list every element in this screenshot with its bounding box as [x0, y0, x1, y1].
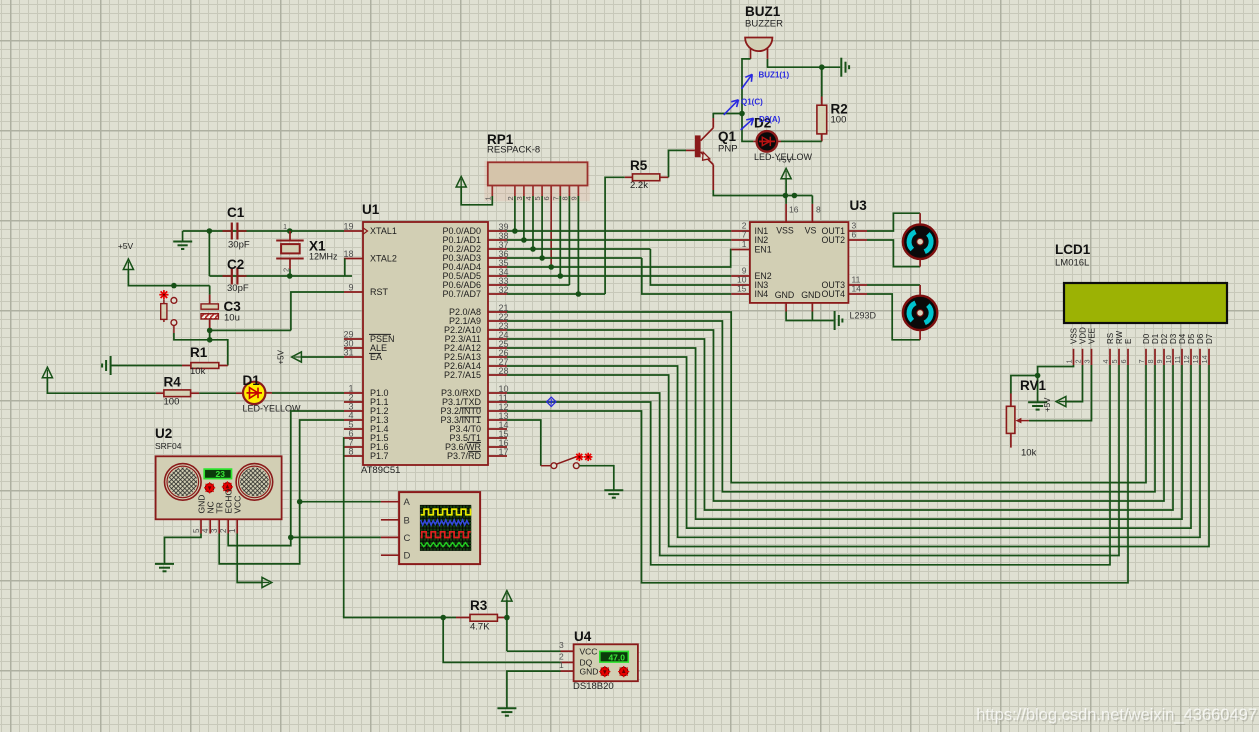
svg-text:18: 18 — [343, 249, 353, 259]
svg-text:C: C — [404, 533, 411, 544]
svg-text:23: 23 — [216, 469, 226, 479]
svg-text:P3.7/RD: P3.7/RD — [447, 451, 482, 461]
svg-text:D6: D6 — [1196, 333, 1205, 344]
svg-text:D3: D3 — [1169, 333, 1178, 344]
svg-text:2: 2 — [1073, 359, 1082, 363]
svg-text:4: 4 — [524, 196, 533, 200]
svg-text:LCD1: LCD1 — [1055, 242, 1091, 257]
svg-text:P0.7/AD7: P0.7/AD7 — [442, 289, 481, 299]
svg-text:3: 3 — [559, 640, 564, 650]
svg-text:8: 8 — [816, 205, 821, 215]
svg-text:EN1: EN1 — [755, 245, 772, 255]
svg-text:SRF04: SRF04 — [155, 441, 182, 451]
svg-text:9: 9 — [348, 283, 353, 293]
svg-text:PNP: PNP — [718, 144, 738, 155]
svg-text:RST: RST — [370, 287, 389, 297]
svg-text:47.0: 47.0 — [608, 652, 625, 662]
svg-text:RS: RS — [1106, 333, 1115, 344]
svg-text:4: 4 — [1101, 359, 1110, 363]
svg-text:11: 11 — [1173, 356, 1182, 364]
svg-text:D0: D0 — [1142, 333, 1151, 344]
svg-text:GND: GND — [580, 666, 599, 676]
svg-text:A: A — [404, 497, 411, 508]
svg-text:100: 100 — [164, 397, 180, 408]
svg-text:10k: 10k — [190, 366, 206, 377]
svg-text:D: D — [404, 551, 411, 562]
svg-text:AT89C51: AT89C51 — [361, 465, 400, 476]
svg-text:VCC: VCC — [233, 496, 243, 514]
svg-text:9: 9 — [1155, 359, 1164, 363]
svg-text:2: 2 — [506, 196, 515, 200]
svg-text:C1: C1 — [227, 205, 245, 220]
svg-text:19: 19 — [343, 222, 353, 232]
svg-text:30pF: 30pF — [227, 283, 249, 294]
svg-text:10: 10 — [1164, 355, 1173, 363]
svg-text:8: 8 — [348, 447, 353, 457]
svg-text:D2: D2 — [1160, 333, 1169, 344]
svg-text:P1.7: P1.7 — [370, 451, 389, 461]
svg-text:1: 1 — [283, 224, 287, 231]
svg-text:D5: D5 — [1187, 333, 1196, 344]
svg-text:12: 12 — [1182, 355, 1191, 363]
svg-text:7: 7 — [551, 196, 560, 200]
svg-text:10k: 10k — [1021, 448, 1037, 459]
svg-text:BUZ1: BUZ1 — [745, 4, 781, 19]
svg-text:D1: D1 — [1151, 333, 1160, 344]
svg-text:D7: D7 — [1205, 333, 1214, 344]
svg-text:17: 17 — [499, 447, 509, 457]
svg-text:7: 7 — [742, 230, 747, 240]
svg-text:BUZ1(1): BUZ1(1) — [759, 71, 790, 80]
svg-text:R1: R1 — [190, 345, 208, 360]
svg-text:6: 6 — [542, 196, 551, 200]
svg-text:RESPACK-8: RESPACK-8 — [487, 145, 540, 156]
svg-text:VS: VS — [805, 226, 817, 236]
svg-text:1: 1 — [483, 196, 492, 200]
svg-text:14: 14 — [1200, 355, 1209, 363]
svg-text:3: 3 — [515, 196, 524, 200]
svg-text:100: 100 — [831, 115, 847, 126]
svg-text:2.2k: 2.2k — [630, 180, 648, 191]
svg-text:5: 5 — [192, 528, 201, 533]
svg-text:8: 8 — [560, 196, 569, 200]
svg-text:10u: 10u — [224, 313, 240, 324]
svg-text:1: 1 — [742, 239, 747, 249]
svg-text:12MHz: 12MHz — [309, 252, 338, 262]
svg-text:U3: U3 — [850, 198, 868, 213]
svg-text:OUT2: OUT2 — [822, 235, 846, 245]
svg-text:U4: U4 — [574, 629, 592, 644]
svg-text:LED-YELLOW: LED-YELLOW — [243, 404, 302, 414]
svg-text:DS18B20: DS18B20 — [573, 681, 614, 692]
svg-text:15: 15 — [737, 284, 747, 294]
svg-text:7: 7 — [1137, 359, 1146, 363]
svg-text:IN2: IN2 — [755, 235, 769, 245]
svg-text:2: 2 — [282, 268, 291, 272]
svg-text:4.7K: 4.7K — [470, 622, 490, 633]
svg-text:BUZZER: BUZZER — [745, 19, 783, 30]
svg-text:5: 5 — [533, 196, 542, 200]
svg-text:31: 31 — [343, 348, 353, 358]
svg-text:R4: R4 — [164, 375, 182, 390]
svg-text:1: 1 — [228, 528, 237, 533]
svg-text:IN4: IN4 — [755, 289, 769, 299]
svg-text:6: 6 — [1119, 359, 1128, 363]
svg-text:2: 2 — [219, 528, 228, 533]
svg-text:L293D: L293D — [850, 311, 877, 321]
svg-text:E: E — [1124, 339, 1133, 344]
svg-text:RV1: RV1 — [1020, 378, 1047, 393]
svg-text:R5: R5 — [630, 158, 648, 173]
svg-text:B: B — [404, 515, 410, 526]
svg-text:D1: D1 — [243, 373, 261, 388]
svg-text:LM016L: LM016L — [1055, 258, 1089, 269]
svg-text:6: 6 — [852, 230, 857, 240]
svg-text:4: 4 — [201, 528, 210, 533]
svg-text:GND: GND — [801, 290, 821, 300]
svg-text:8: 8 — [1146, 359, 1155, 363]
svg-text:OUT4: OUT4 — [822, 289, 846, 299]
svg-text:D2(A): D2(A) — [759, 115, 781, 124]
svg-text:RW: RW — [1115, 330, 1124, 344]
svg-text:R3: R3 — [470, 598, 488, 613]
svg-text:C2: C2 — [227, 257, 244, 272]
svg-text:VEE: VEE — [1088, 328, 1097, 344]
svg-text:VSS: VSS — [776, 226, 794, 236]
svg-text:https://blog.csdn.net/weixin_4: https://blog.csdn.net/weixin_43660497 — [976, 706, 1257, 724]
svg-text:GND: GND — [775, 290, 795, 300]
svg-text:13: 13 — [1191, 355, 1200, 363]
svg-text:5: 5 — [1110, 359, 1119, 363]
svg-text:+5V: +5V — [118, 241, 134, 251]
svg-text:Q1: Q1 — [718, 129, 737, 144]
svg-text:+5V: +5V — [1043, 397, 1052, 412]
svg-text:XTAL2: XTAL2 — [370, 254, 397, 264]
svg-text:30pF: 30pF — [228, 240, 250, 251]
svg-text:1: 1 — [559, 660, 564, 670]
svg-text:Q1(C): Q1(C) — [741, 98, 763, 107]
svg-text:VDD: VDD — [1079, 327, 1088, 344]
svg-text:D4: D4 — [1178, 333, 1187, 344]
svg-text:14: 14 — [852, 284, 862, 294]
svg-text:P2.7/A15: P2.7/A15 — [444, 370, 481, 380]
svg-text:1: 1 — [1064, 359, 1073, 363]
svg-text:XTAL1: XTAL1 — [370, 226, 397, 236]
svg-text:16: 16 — [789, 205, 799, 215]
svg-text:3: 3 — [210, 528, 219, 533]
svg-text:3: 3 — [1082, 359, 1091, 363]
svg-text:U2: U2 — [155, 426, 172, 441]
svg-text:VCC: VCC — [580, 646, 598, 656]
svg-text:U1: U1 — [362, 202, 380, 217]
svg-text:VSS: VSS — [1070, 328, 1079, 344]
svg-text:+5V: +5V — [277, 349, 286, 364]
svg-text:9: 9 — [569, 196, 578, 200]
svg-text:LED-YELLOW: LED-YELLOW — [754, 152, 813, 162]
